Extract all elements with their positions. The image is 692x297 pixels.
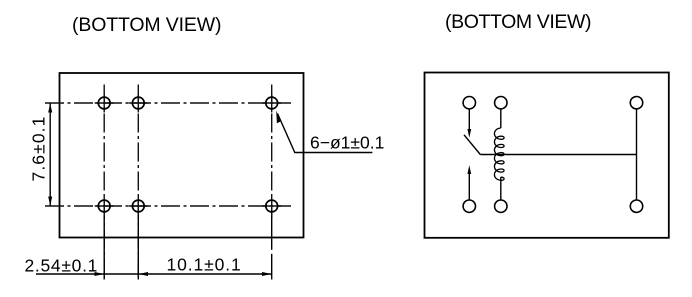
NO contact arrowhead (up) [467, 165, 471, 174]
hole H4 (bottom row, col 1) [98, 200, 110, 212]
extension line col3 (solid below body, dash gap) [271, 216, 273, 250]
dimension 7.6 arrow up [48, 103, 52, 113]
arrow right at col3 (10.1 dim) [262, 272, 272, 276]
wire common to right column [480, 154, 636, 156]
extension line col1 (solid below body) [103, 216, 105, 280]
svg-text:(BOTTOM VIEW): (BOTTOM VIEW) [72, 14, 221, 36]
pin 3 (top right) [630, 97, 642, 109]
NC contact arrowhead (down) [467, 129, 471, 138]
svg-text:6−ø1±0.1: 6−ø1±0.1 [310, 133, 384, 153]
hole H2 (top row, col 2) [132, 97, 144, 109]
coil L1 [494, 128, 504, 180]
pin 4 (bottom left) [463, 200, 475, 212]
leader line to hole note [278, 114, 373, 153]
wire pin3 to pin6 (right column) [636, 109, 638, 200]
centerline cross at hole (104.2,206) [95, 205, 114, 207]
pin 5 (bottom, coil) [495, 200, 507, 212]
relay body outline (schematic view) [425, 73, 669, 238]
hole H3 (top row, col 3) [266, 97, 278, 109]
centerline cross at hole (138.3,206) [129, 205, 148, 207]
centerline column 1 (vertical dash-dot) [103, 85, 105, 281]
centerline column 3 (vertical dash-dot) [271, 85, 273, 219]
hole H6 (bottom row, col 3) [266, 200, 278, 212]
centerline row 1 (horizontal dash-dot through top holes) [45, 102, 291, 104]
bottom dimension line [36, 273, 272, 275]
switch blade (movable contact) [464, 135, 480, 155]
dimension 7.6 arrow down [48, 197, 52, 207]
extension line col2 (solid below body) [137, 216, 139, 280]
coil bottom lead [500, 177, 502, 200]
svg-text:7.6±0.1: 7.6±0.1 [29, 116, 49, 182]
arrow right at col1 (2.54 dim) [95, 272, 105, 276]
dimension 7.6 line (vertical, left) [49, 103, 51, 206]
wire from pin4 up (NO contact) [468, 172, 470, 200]
hole H5 (bottom row, col 2) [132, 200, 144, 212]
svg-text:(BOTTOM VIEW): (BOTTOM VIEW) [445, 11, 591, 33]
svg-text:2.54±0.1: 2.54±0.1 [25, 255, 99, 275]
pin 1 (top left) [463, 97, 475, 109]
pin 6 (bottom right) [630, 200, 642, 212]
coil top lead [500, 109, 502, 128]
svg-text:10.1±0.1: 10.1±0.1 [167, 254, 242, 274]
centerline row 2 (horizontal dash-dot through bottom holes) [45, 205, 291, 207]
centerline cross at hole (138.3,103) [129, 102, 148, 104]
arrow left at col2 (10.1 dim) [138, 272, 148, 276]
wire from pin1 down (NC contact) [468, 109, 470, 131]
hole H1 (top row, col 1) [98, 97, 110, 109]
centerline cross at hole (104.2,103) [95, 102, 114, 104]
pin 2 (top, coil) [495, 97, 507, 109]
centerline cross at hole (271.7,103) [262, 102, 281, 104]
relay body outline (left view) [60, 73, 304, 238]
centerline column 2 (vertical dash-dot) [137, 85, 139, 281]
leader arrowhead at hole H3 [276, 111, 280, 124]
centerline cross at hole (271.7,206) [262, 205, 281, 207]
